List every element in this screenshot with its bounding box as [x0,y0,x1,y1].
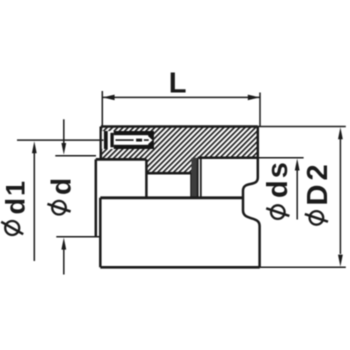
part outline: lower body left face [99,198,102,267]
dimension phi-d: bottom segment with up arrow [63,249,65,275]
dimension phi-d: top segment with down arrow [63,119,65,144]
svg-text:d1: d1 [1,179,31,215]
part outline: step right edge [145,159,148,197]
label phi d1 [1,179,31,235]
dimension L: left arrowhead [103,95,115,101]
part outline: double line 1 [197,158,199,198]
dimension phi-d: top extension line [55,155,96,157]
part outline: notch bottom edge [146,172,191,175]
part outline: ds step top edge [198,157,258,160]
dimension L: dimension line [103,96,260,98]
svg-text:ds: ds [262,160,294,198]
hatched section area [101,127,258,198]
label phi d [46,176,77,215]
centerline [17,139,104,141]
part outline: step top edge [96,158,147,161]
part outline: step left face [95,159,98,236]
dimension L: extension lines [102,91,260,126]
dimension phi-D2: bottom extension line [260,266,346,268]
part outline: top edge [101,125,258,128]
dimension L: right arrowhead [248,95,260,101]
dimension phi-D2: top extension line [258,126,346,128]
dimension phi-ds: extension line [258,157,304,159]
dark hatch column [191,158,198,198]
part outline: double line 2 [200,158,202,198]
part outline: lower body bottom edge [100,266,259,269]
svg-text:d: d [46,176,77,195]
part outline: lower body top edge [100,196,243,199]
label phi ds [262,160,294,219]
threaded bore block [102,131,154,149]
dimension phi-d: bottom extension line [56,236,100,238]
dimension phi-D2: line + two arrows [339,139,341,254]
svg-text:L: L [169,68,187,100]
svg-text:D2: D2 [302,160,334,205]
dimension phi-d1: line + up arrow [33,146,35,261]
part outline: band left face [100,127,103,160]
part outline: notch right edge [190,173,192,198]
dimension phi-ds: line + up arrow [296,170,298,220]
part outline: right face with neck S-curves [243,127,260,268]
label phi D2 [302,160,334,224]
